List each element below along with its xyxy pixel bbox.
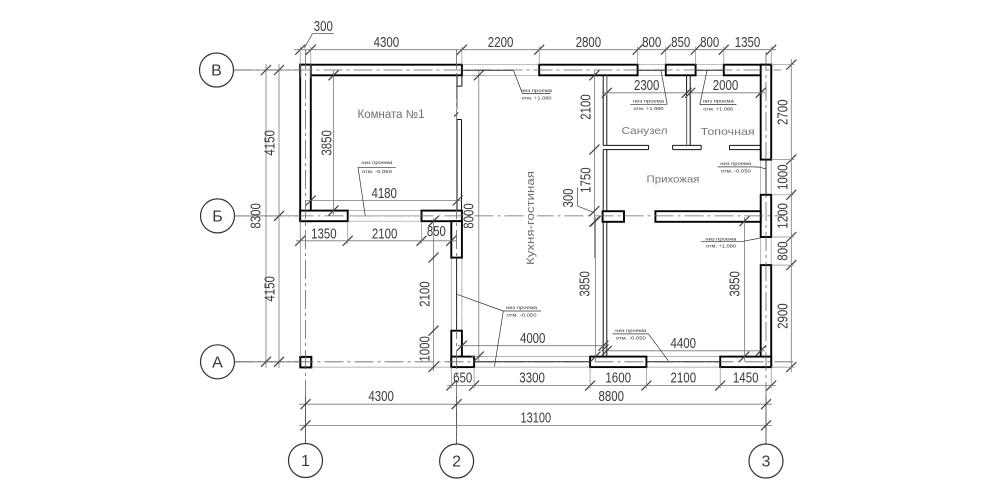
svg-text:4000: 4000 (520, 331, 546, 347)
wall at axis Б left segment 1350 (300, 211, 348, 222)
axis-2 wall pier at top wall (457, 75, 462, 86)
svg-text:3: 3 (762, 454, 771, 471)
top dimension line chain (294, 45, 776, 78)
bottom chain texts (453, 371, 758, 387)
axis circle 3 (749, 444, 783, 478)
wall at axis Б right segment 600 (603, 211, 624, 222)
svg-text:отм. -0.050: отм. -0.050 (507, 313, 537, 318)
dimension 8000 overall interior (vertical) (462, 70, 484, 361)
dimension 3850 left of lower right room (vertical) (578, 216, 609, 361)
level note for window 2200 at top (514, 71, 553, 101)
svg-text:8800: 8800 (599, 389, 625, 405)
door leaf line of Комната №1 door (454, 86, 458, 116)
exterior right wall lower segment 2900 (761, 265, 772, 367)
terrace edge line bottom (left of kitchen stub) (312, 366, 452, 368)
svg-text:отм. -0.050: отм. -0.050 (616, 335, 646, 340)
axis circle А with connector (201, 345, 301, 379)
exterior top wall of Комната №1 (axis 1-2) (300, 65, 462, 76)
svg-text:1450: 1450 (733, 371, 759, 387)
exterior top wall segment 2800 (539, 65, 637, 76)
room label Топочная (701, 126, 755, 138)
axis line А (horizontal, row А) (235, 361, 794, 363)
axis circle 1 (289, 444, 323, 478)
exterior right wall upper segment 2700 (761, 65, 772, 160)
axis line 1 (vertical, col 1) (305, 50, 307, 444)
exterior top wall segment 850 (666, 65, 696, 76)
exterior bottom wall segment 1600 (590, 357, 646, 368)
wall at axis Б segment 850 with axis-2 corner (422, 211, 462, 222)
svg-text:низ проема: низ проема (615, 328, 646, 333)
svg-text:отм. +1.080: отм. +1.080 (706, 244, 736, 249)
room label Кухня-гостиная (524, 168, 537, 268)
window middle lines in openings (348, 70, 766, 362)
dimension row 4300/8800 (299, 389, 772, 409)
svg-text:низ проема: низ проема (703, 99, 734, 104)
svg-text:отм. +1.080: отм. +1.080 (703, 107, 733, 112)
axis line В (horizontal, row B) (234, 69, 782, 71)
svg-text:1350: 1350 (735, 35, 761, 51)
svg-text:650: 650 (453, 371, 472, 387)
svg-text:4300: 4300 (368, 389, 394, 405)
Санузел south wall with door jamb (603, 145, 648, 149)
svg-text:Комната №1: Комната №1 (358, 109, 425, 121)
dimension 3850 right of lower right room (vertical) (728, 216, 750, 361)
axis line 3 solid segment to circle (765, 396, 767, 444)
svg-text:1000: 1000 (418, 336, 434, 362)
svg-text:13100: 13100 (521, 410, 552, 426)
svg-text:низ проема: низ проема (720, 161, 751, 166)
axis line Б (horizontal, row Б) (235, 215, 786, 217)
level note for axis-2 window and kitchen window (457, 294, 541, 366)
svg-text:2900: 2900 (776, 303, 792, 329)
extension stubs of 8000 dimension (472, 75, 487, 356)
svg-text:Топочная: Топочная (701, 126, 755, 138)
dimension 4400 in lower right room (601, 336, 766, 356)
hallway wall T-piece between doors (673, 145, 702, 149)
wall at axis Б right segment 3000 (655, 211, 760, 222)
dimension 300 Б wall thickness note (561, 187, 594, 212)
svg-text:4400: 4400 (671, 336, 697, 352)
svg-text:2800: 2800 (576, 35, 602, 51)
svg-text:2100: 2100 (372, 226, 398, 242)
bottom wall stub 650 at axis 2 (451, 357, 474, 368)
svg-text:низ проема: низ проема (506, 305, 537, 310)
partition Кухня / room lower (603, 222, 607, 357)
svg-text:1600: 1600 (605, 371, 631, 387)
top dimension texts (374, 35, 761, 51)
left dimension line 4150/4150 (263, 64, 285, 368)
axis circle 2 (440, 444, 474, 478)
svg-text:850: 850 (427, 224, 446, 240)
svg-text:низ проема: низ проема (521, 88, 552, 93)
svg-text:отм. -0.050: отм. -0.050 (362, 169, 392, 174)
svg-text:Б: Б (212, 208, 223, 225)
dimension 2000 in Топочная (713, 78, 739, 94)
bottom dimension chain 650/3300/1600/2100/1450 (446, 367, 776, 391)
partition Кухня / Прихожая middle (603, 150, 607, 212)
dimension 2300 in Санузел (602, 75, 766, 145)
exterior right wall middle segment 1200 (761, 195, 772, 237)
level note for right wall door (718, 161, 766, 174)
svg-text:1000: 1000 (776, 164, 792, 190)
level note for bottom window 2100 (612, 328, 668, 361)
svg-text:850: 850 (671, 35, 690, 51)
svg-text:3850: 3850 (578, 271, 594, 297)
dimension 1000 pier (vertical) (418, 336, 434, 362)
svg-text:В: В (211, 63, 222, 80)
svg-text:3850: 3850 (320, 130, 336, 156)
svg-text:2700: 2700 (776, 99, 792, 125)
dimension 3850 in Комната №1 (vertical) (320, 70, 339, 215)
svg-text:3300: 3300 (519, 371, 545, 387)
dimension 4000 in Кухня-гостиная (457, 331, 609, 351)
Топочная south wall segment (730, 145, 761, 149)
svg-text:3850: 3850 (728, 271, 744, 297)
right chain texts (776, 99, 792, 328)
svg-text:2100: 2100 (579, 94, 595, 120)
svg-text:800: 800 (700, 35, 719, 51)
svg-text:300: 300 (314, 19, 333, 35)
svg-text:300: 300 (561, 189, 577, 208)
dimension row 13100 overall (299, 410, 772, 430)
svg-text:1750: 1750 (579, 167, 595, 193)
svg-text:4150: 4150 (263, 130, 279, 156)
svg-text:4150: 4150 (263, 276, 279, 302)
exterior bottom wall segment 1450 (720, 357, 771, 368)
svg-text:800: 800 (776, 241, 792, 260)
dimension 2100 Санузел depth (vertical) (579, 70, 600, 258)
level note for Санузел window (630, 71, 667, 112)
level note for Топочная window (700, 71, 737, 112)
svg-text:низ проема: низ проема (361, 160, 392, 165)
axis-2 wall pier above bottom wall (451, 331, 462, 367)
svg-text:Кухня-гостиная: Кухня-гостиная (525, 171, 537, 265)
svg-text:2100: 2100 (671, 371, 697, 387)
axis circle В with connector (200, 53, 301, 87)
partition Санузел / Топочная (687, 75, 691, 145)
svg-text:2300: 2300 (634, 78, 660, 94)
axis circle Б with connector (201, 199, 301, 233)
svg-text:2000: 2000 (713, 78, 739, 94)
right dimension chain 2700/1000/1200/800/2900 (771, 59, 796, 372)
room label Комната №1 (358, 109, 425, 121)
axis line 2 (vertical, col 2) (456, 50, 458, 444)
exterior left wall (axis 1) (300, 65, 311, 222)
dimension chain 1350/2100/850 below Б wall (295, 221, 456, 246)
room label Санузел (622, 125, 668, 137)
svg-text:1: 1 (301, 453, 310, 470)
axis-2 wall pier below Б wall (451, 221, 462, 257)
svg-text:отм. +1.080: отм. +1.080 (634, 106, 664, 111)
axis line 3 (vertical, col 3) (765, 52, 767, 444)
axis line 1 solid segment to circle (305, 396, 307, 444)
left dimension line 8300 overall (249, 64, 272, 368)
dimension 300 wall thickness note at top left (304, 19, 334, 48)
svg-text:1350: 1350 (311, 226, 337, 242)
svg-text:4180: 4180 (371, 186, 397, 202)
window and door opening face lines (348, 65, 772, 367)
svg-text:низ проема: низ проема (633, 99, 664, 104)
partition Кухня / Санузел and Прихожая upper (603, 75, 607, 145)
svg-text:800: 800 (642, 35, 661, 51)
room label Прихожая (647, 174, 700, 186)
partition Комната №1 / Кухня-гостиная (457, 120, 462, 211)
svg-text:8000: 8000 (462, 203, 478, 229)
svg-text:низ проема: низ проема (705, 236, 736, 241)
terrace edge line left (below Комната №1) (299, 221, 301, 357)
porch column at axis 1/А (300, 357, 311, 368)
level note for right wall window 800 (701, 236, 760, 248)
svg-text:2200: 2200 (488, 35, 514, 51)
svg-text:Прихожая: Прихожая (647, 174, 700, 186)
svg-text:4300: 4300 (374, 35, 400, 51)
dimension 1750 hallway (vertical) (579, 167, 600, 226)
svg-text:А: А (212, 354, 223, 371)
exterior top wall segment 1350 with corner (724, 65, 771, 76)
svg-text:2: 2 (452, 454, 461, 471)
svg-text:отм. +1.080: отм. +1.080 (522, 96, 552, 101)
svg-text:отм. -0.050: отм. -0.050 (721, 169, 751, 174)
svg-text:1200: 1200 (776, 203, 792, 229)
dimension 2100 window in axis-2 wall (vertical) (418, 216, 439, 372)
level note for terrace door in Комната №1 (358, 160, 396, 215)
dimension 4180 in Комната №1 (306, 186, 463, 206)
svg-text:Санузел: Санузел (622, 125, 668, 137)
axis line 2 solid segment to circle (456, 396, 458, 444)
svg-text:2100: 2100 (418, 281, 434, 307)
